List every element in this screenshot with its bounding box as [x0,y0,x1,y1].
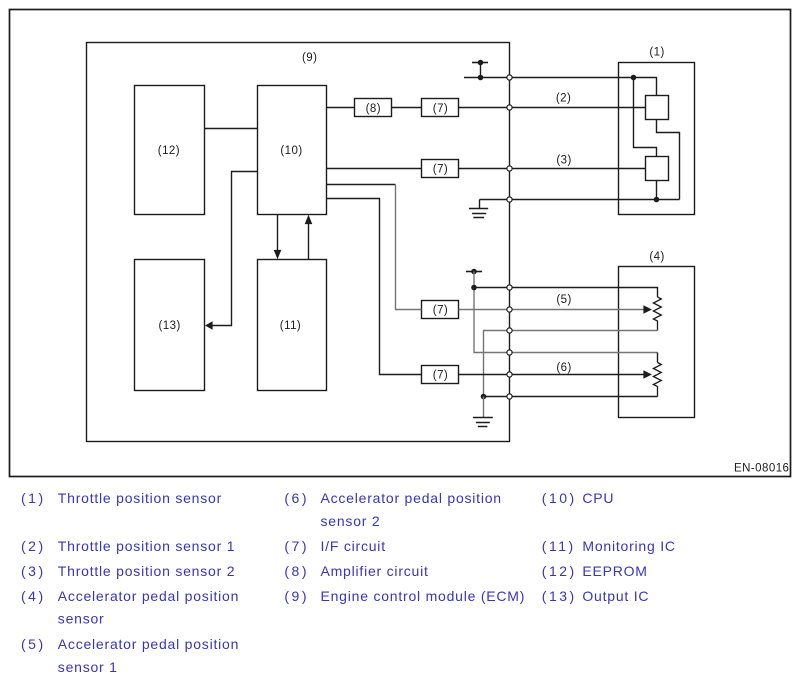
Output IC box 13 [135,260,205,391]
pot1 bottom gray return wire y330.5 [484,331,658,397]
svg-text:(5): (5) [556,294,571,306]
square1 bottom path [657,120,680,200]
svg-text:(7): (7) [433,304,448,316]
wire Monitoring IC up to CPU [308,224,310,260]
TPS box 1 [619,63,695,215]
wire 5 gray: 7c to pot1 wiper [459,309,644,311]
svg-text:(4): (4) [21,588,46,604]
svg-text:EN-08016: EN-08016 [734,463,789,475]
ECM pin circle y287.5 [507,285,512,290]
svg-text:(12): (12) [542,563,577,579]
wire CPU right y198.5 to 7d [327,199,422,375]
wire gray drop to 7c [396,185,422,310]
svg-text:(10): (10) [542,490,577,506]
wire CPU to 7b [327,168,422,170]
ground symbol lower: bars [473,418,493,427]
svg-text:CPU: CPU [582,490,614,506]
I/F box 7a [422,99,459,117]
I/F box 7d [422,366,459,384]
ECM pin circle y309.5 [507,307,512,312]
wire 6: 7d to pot2 wiper [459,374,644,376]
svg-text:Accelerator pedal position: Accelerator pedal position [58,588,239,604]
power tap upper: dot on bar [478,60,484,66]
pot2 zigzag [653,363,661,397]
ECM pin circle y199.5 [507,197,512,202]
svg-text:(6): (6) [284,490,309,506]
svg-text:(2): (2) [21,538,46,554]
svg-text:(11): (11) [280,320,301,332]
ECM pin circle y396.5 [507,394,512,399]
ground symbol upper: bars [469,209,488,218]
TPS2 supply branch [634,78,657,157]
svg-text:Accelerator pedal position: Accelerator pedal position [321,490,502,506]
svg-text:(12): (12) [158,145,180,157]
power tap upper: bar [472,62,488,64]
I/F box 7b [422,160,459,178]
outer frame [10,10,791,477]
I/F box 7c [422,301,459,319]
TPS element square1 [646,96,669,120]
svg-text:(9): (9) [302,52,317,64]
wiper arrowhead pot1 [643,305,652,314]
ECM pin circle y352.5 [507,350,512,355]
wire 3: 7b to TPS square2 [459,168,646,170]
wire CPU down to Monitoring IC [277,215,279,251]
ground wire lower y396.5 [484,396,658,398]
pot1 zigzag [653,297,661,331]
svg-text:Throttle position sensor 1: Throttle position sensor 1 [58,538,235,554]
ground symbol upper: stub [479,200,481,209]
svg-text:(7): (7) [284,538,309,554]
svg-text:Throttle position sensor 2: Throttle position sensor 2 [58,563,235,579]
junction dot ground lower [481,394,487,400]
junction dot at 633.5,77.5 [631,75,637,81]
pedal sensor box 4 [619,267,695,418]
svg-text:(8): (8) [366,103,381,115]
svg-text:(10): (10) [280,145,302,157]
wire CPU to amplifier [327,107,355,109]
svg-text:(4): (4) [649,251,664,263]
Monitoring IC box 11 [258,260,327,391]
wire amplifier to 7a [392,107,422,109]
ground symbol lower: gray stub [483,397,485,418]
wiper arrowhead pot2 [643,370,652,379]
ECM box U9 [87,43,510,442]
power tap upper: stub [480,63,482,78]
ECM pin circle y374.5 [507,372,512,377]
arrowhead into 10 [305,215,313,224]
svg-text:EEPROM: EEPROM [582,563,647,579]
svg-text:Amplifier circuit: Amplifier circuit [321,563,429,579]
ECM pin circle y168.5 [507,166,512,171]
svg-text:(13): (13) [159,320,181,332]
arrowhead into 11 [274,250,282,259]
svg-text:(2): (2) [556,93,571,105]
svg-text:Engine control module (ECM): Engine control module (ECM) [321,588,526,604]
gray riser from power tap to pot2 top wire [474,272,658,353]
svg-text:(11): (11) [542,538,576,554]
svg-text:(7): (7) [433,370,448,382]
svg-text:sensor 2: sensor 2 [321,513,381,529]
junction dot sq2 ground [654,197,660,203]
square2 bottom lead [656,181,658,200]
junction dot y287.5 [471,285,477,291]
svg-text:(3): (3) [21,563,46,579]
wire CPU right y184 black part [327,184,396,186]
svg-text:sensor: sensor [58,611,105,627]
wire CPU to Output IC [212,172,258,326]
svg-text:Accelerator pedal position: Accelerator pedal position [58,636,239,652]
supply wire y287.5 to pot1 top [474,288,658,298]
svg-text:(7): (7) [433,103,448,115]
svg-text:(5): (5) [21,636,46,652]
pot2 top lead [657,353,659,363]
svg-text:(1): (1) [21,490,46,506]
TPS element square2 [646,157,669,181]
ECM pin circle y77.5 [507,75,512,80]
svg-text:sensor 1: sensor 1 [58,659,118,675]
svg-text:(8): (8) [284,563,309,579]
svg-text:(13): (13) [542,588,577,604]
TPS ground wire y199.5 [480,199,680,201]
svg-text:(7): (7) [433,164,448,176]
svg-text:Output IC: Output IC [582,588,649,604]
svg-text:(1): (1) [649,46,664,58]
power tap lower: dot [471,269,477,275]
arrowhead into 13 [205,321,213,330]
ECM pin circle y107.5 [507,105,512,110]
svg-text:(6): (6) [556,362,571,374]
wire 2: 7a to TPS square1 [459,107,646,109]
power tap lower: bar [466,271,482,273]
svg-text:(3): (3) [556,155,571,167]
TPS supply wire y77.5 [464,78,657,96]
amplifier box 8 [355,99,392,117]
svg-text:I/F circuit: I/F circuit [321,538,386,554]
ECM pin circle y330.5 [507,328,512,333]
svg-text:Monitoring IC: Monitoring IC [582,538,675,554]
CPU box 10 [258,86,327,215]
wire EEPROM to CPU [205,128,258,130]
svg-text:(9): (9) [284,588,309,604]
svg-text:Throttle position sensor: Throttle position sensor [58,490,222,506]
junction dot supply y77.5 [478,75,484,81]
EEPROM box 12 [135,86,205,215]
